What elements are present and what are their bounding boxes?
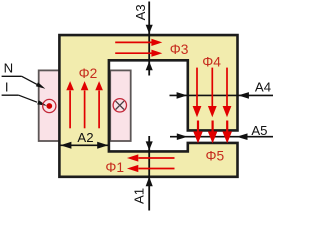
current direction symbol: circled dot (out of page) (43, 99, 56, 112)
svg-text:I: I (5, 80, 9, 95)
svg-text:Φ5: Φ5 (206, 149, 225, 164)
flux Φ4 arrows (down, right limb) (193, 68, 232, 118)
svg-text:A2: A2 (77, 130, 93, 145)
coil left half (pink winding, outside core) (39, 70, 60, 141)
svg-text:A5: A5 (251, 123, 267, 138)
svg-text:A1: A1 (131, 188, 146, 204)
N leader line (2, 76, 46, 88)
dimension A5 line (air gap) (170, 133, 273, 140)
flux Φ3 arrows (right, top yoke) (115, 39, 162, 57)
dimension A1 line (146, 136, 153, 211)
flux Φ1 arrows (left, bottom yoke) (127, 154, 175, 172)
svg-text:A3: A3 (133, 4, 148, 20)
dimension A3 line (146, 2, 153, 76)
dimension A4 line (170, 92, 274, 99)
svg-text:A4: A4 (255, 79, 271, 94)
svg-text:N: N (4, 61, 14, 76)
flux Φ5 air-gap arrows (down, crossing gap) (193, 121, 232, 144)
dimension A2 double arrow (60, 142, 108, 149)
core (C-shaped magnetic core with air gap in right limb) (59, 35, 237, 177)
flux Φ2 arrows (up, left limb) (66, 81, 103, 128)
current direction symbol: circled cross (into page) (113, 99, 126, 112)
svg-text:Φ3: Φ3 (170, 42, 189, 57)
svg-text:Φ4: Φ4 (202, 55, 221, 70)
svg-text:Φ2: Φ2 (79, 66, 98, 81)
coil right half (pink winding, inside window) (110, 70, 131, 141)
I leader line (2, 95, 47, 106)
svg-text:Φ1: Φ1 (105, 160, 124, 175)
